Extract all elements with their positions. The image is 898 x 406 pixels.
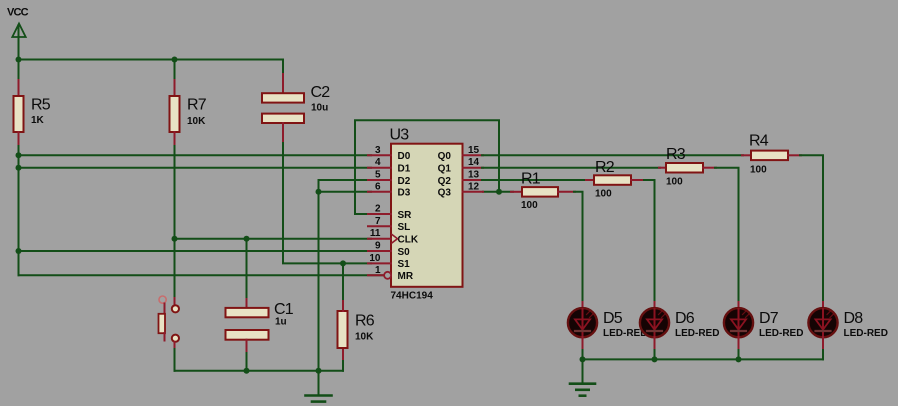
svg-text:D8: D8	[844, 310, 864, 327]
svg-text:R6: R6	[355, 313, 375, 330]
wire ground stem center	[318, 371, 320, 396]
wire MR rail	[19, 274, 385, 276]
svg-text:6: 6	[375, 181, 381, 192]
pin R3 left	[659, 167, 666, 169]
svg-text:7: 7	[375, 216, 381, 227]
svg-text:R2: R2	[595, 159, 615, 176]
svg-text:2: 2	[375, 204, 381, 215]
pin R7 bottom	[174, 132, 176, 147]
wire C2 top drop	[282, 60, 284, 77]
svg-text:5: 5	[375, 170, 381, 181]
wire R7 top drop	[174, 60, 176, 83]
pin C1 top	[246, 299, 248, 308]
pin button top	[174, 298, 176, 305]
svg-text:Q1: Q1	[438, 164, 452, 175]
pin R4 right	[788, 154, 801, 156]
svg-text:S1: S1	[398, 259, 411, 270]
svg-text:D6: D6	[675, 310, 695, 327]
svg-text:MR: MR	[398, 271, 414, 282]
node junction D7/rail	[736, 356, 742, 362]
wire S0 rail	[19, 250, 372, 252]
node junction rail/ground	[316, 368, 322, 374]
svg-text:R4: R4	[749, 133, 769, 150]
pin R1 left	[511, 191, 522, 193]
svg-text:C1: C1	[274, 301, 294, 318]
wire ground stem LED	[582, 359, 584, 383]
wire left column A	[18, 146, 20, 275]
svg-text:Q3: Q3	[438, 188, 452, 199]
svg-text:D7: D7	[759, 310, 779, 327]
wire SR feedback left column	[355, 120, 499, 214]
wire button bottom drop	[174, 349, 176, 371]
wire D7 bottom drop	[738, 350, 740, 359]
svg-text:12: 12	[468, 181, 480, 192]
pin R2 left	[586, 179, 594, 181]
pin U3.14 Q1	[438, 157, 483, 174]
pin R5 bottom	[18, 132, 20, 147]
svg-text:R3: R3	[666, 146, 686, 163]
capacitor C1	[226, 301, 294, 340]
wire D1 rail	[19, 167, 372, 169]
svg-text:100: 100	[521, 200, 538, 211]
wire C1 bottom drop	[246, 353, 248, 371]
wire Q3 link	[483, 191, 513, 193]
pin R2 right	[631, 179, 645, 181]
wire button top drop	[174, 297, 176, 299]
pin U3.12 Q3	[438, 181, 483, 198]
svg-text:D2: D2	[398, 176, 411, 187]
pin U3.9 S0	[368, 241, 410, 258]
resistor R7	[170, 96, 180, 132]
pin R7 top	[174, 80, 176, 96]
svg-text:D5: D5	[603, 310, 623, 327]
pin U3.4 D1	[368, 157, 411, 174]
node junction rail/R7	[172, 57, 178, 63]
svg-text:C2: C2	[311, 84, 331, 101]
svg-text:R5: R5	[31, 97, 51, 114]
power symbol VCC arrow	[12, 24, 25, 38]
node junction D1 rail	[16, 165, 22, 171]
svg-text:13: 13	[468, 170, 480, 181]
svg-text:10: 10	[369, 253, 381, 264]
svg-text:SR: SR	[398, 210, 413, 221]
led D6	[640, 302, 720, 351]
svg-text:10K: 10K	[187, 116, 206, 127]
ground LED symbol	[570, 384, 595, 396]
node junction D3/ground column	[316, 189, 322, 195]
pin U3.2 SR	[368, 204, 412, 221]
pin R3 right	[703, 167, 716, 169]
button pole link bottom	[164, 333, 166, 341]
resistor R4	[751, 151, 788, 161]
svg-text:3: 3	[375, 145, 381, 156]
resistor R5	[14, 96, 24, 132]
svg-text:LED-RED: LED-RED	[759, 328, 803, 339]
svg-text:10u: 10u	[311, 103, 328, 114]
wire bottom rail	[175, 370, 344, 372]
button terminal bottom	[172, 335, 179, 342]
pin U3.1 MR with bubble	[368, 265, 414, 282]
button actuator circle	[159, 296, 166, 303]
resistor R2	[594, 175, 631, 185]
led D5	[568, 302, 648, 351]
svg-text:15: 15	[468, 145, 480, 156]
pin R6 bottom	[342, 348, 344, 359]
pin U3.5 D2	[368, 170, 411, 187]
wire LED ground rail	[583, 358, 824, 360]
wire CLK rail	[175, 238, 372, 240]
pin U3.10 S1	[368, 253, 410, 270]
pin C2 bottom	[282, 123, 284, 144]
pin U3.7 SL	[368, 216, 410, 233]
wire R4 to D8	[800, 155, 823, 303]
wire Q1 rail	[482, 167, 660, 169]
svg-text:1K: 1K	[31, 115, 45, 126]
svg-text:14: 14	[468, 157, 480, 168]
capacitor C2	[262, 84, 330, 123]
node junction CLK/R7/button	[172, 236, 178, 242]
pin R6 top	[342, 298, 344, 311]
svg-text:CLK: CLK	[398, 235, 419, 246]
button body bar	[159, 314, 166, 333]
svg-text:Q2: Q2	[438, 176, 452, 187]
pin R5 top	[18, 80, 20, 96]
pin U3.13 Q2	[438, 170, 483, 187]
svg-text:74HC194: 74HC194	[391, 290, 434, 301]
wire C2 bottom to S1	[283, 143, 371, 263]
svg-text:D0: D0	[398, 151, 411, 162]
svg-text:D3: D3	[398, 188, 411, 199]
svg-text:U3: U3	[390, 127, 410, 144]
node junction rail/C1	[244, 368, 250, 374]
svg-text:SL: SL	[398, 222, 411, 233]
wire Q2 rail	[482, 179, 587, 181]
pin button bottom	[174, 342, 176, 350]
wire VCC stem	[18, 25, 20, 60]
svg-text:VCC: VCC	[7, 7, 29, 19]
wire R6 top to S1	[342, 263, 344, 299]
wire D6 bottom drop	[654, 350, 656, 359]
pin C2 top	[282, 74, 284, 93]
node junction VCC/R5	[16, 57, 22, 63]
wire ground column E	[318, 192, 320, 371]
button terminal top	[172, 305, 179, 312]
wire D0 rail	[19, 154, 372, 156]
svg-text:LED-RED: LED-RED	[844, 328, 888, 339]
led D8	[808, 302, 888, 351]
wire R3 to D7	[715, 168, 739, 303]
node junction D6/rail	[652, 356, 658, 362]
wire Q0 rail	[482, 154, 743, 156]
pin U3.6 D3	[368, 181, 411, 198]
svg-text:100: 100	[666, 176, 683, 187]
pin U3.15 Q0	[438, 145, 483, 162]
svg-text:D1: D1	[398, 164, 411, 175]
pin R4 left	[742, 154, 751, 156]
wire R2 to D6	[644, 180, 655, 303]
wire D3 rail	[319, 191, 372, 193]
svg-text:9: 9	[375, 241, 381, 252]
svg-text:11: 11	[370, 228, 381, 239]
node junction S1/R6	[340, 260, 346, 266]
wire R6 bottom riser	[342, 358, 344, 371]
pin U3.3 D0	[368, 145, 411, 162]
svg-text:4: 4	[375, 157, 381, 168]
node junction CLK/C1	[244, 236, 250, 242]
wire C1 top drop	[246, 239, 248, 301]
svg-text:1u: 1u	[275, 317, 287, 328]
pin U3.11 CLK	[368, 228, 419, 245]
wire top VCC rail	[19, 59, 284, 61]
svg-text:100: 100	[595, 189, 612, 200]
svg-text:R7: R7	[187, 97, 207, 114]
svg-text:1: 1	[375, 265, 381, 276]
svg-text:R1: R1	[521, 171, 541, 188]
node junction D5/rail	[580, 356, 586, 362]
led D7	[724, 302, 804, 351]
pin C1 bottom	[246, 340, 248, 354]
node junction D0 rail	[16, 152, 22, 158]
button pole link top	[164, 304, 166, 315]
ground center symbol	[306, 396, 332, 402]
resistor R1	[522, 187, 558, 197]
wire R7 column to button	[174, 146, 176, 298]
resistor R3	[666, 163, 703, 173]
node junction S0 rail	[16, 248, 22, 254]
wire R5 top drop	[18, 60, 20, 83]
resistor R6	[338, 311, 348, 348]
node junction Q3/R1	[496, 189, 502, 195]
wire D2 rail	[319, 180, 372, 192]
svg-text:10K: 10K	[355, 332, 374, 343]
pin R1 right	[558, 191, 575, 193]
wire D8 bottom drop	[822, 350, 824, 359]
svg-text:Q0: Q0	[438, 151, 452, 162]
wire R1 to D5	[574, 192, 583, 303]
op IC U3 74HC194 body	[391, 144, 463, 287]
svg-text:LED-RED: LED-RED	[675, 328, 719, 339]
wire D5 bottom drop	[582, 350, 584, 359]
svg-text:S0: S0	[398, 247, 411, 258]
svg-text:100: 100	[750, 165, 767, 176]
